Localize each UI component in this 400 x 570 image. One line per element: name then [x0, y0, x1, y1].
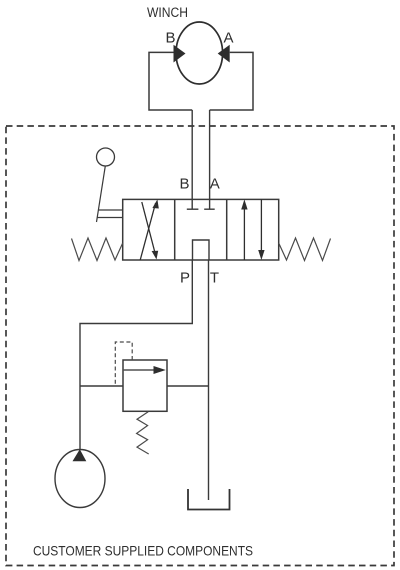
- svg-text:A: A: [223, 30, 233, 47]
- svg-text:B: B: [165, 30, 175, 47]
- svg-text:P: P: [180, 270, 190, 287]
- svg-text:CUSTOMER SUPPLIED COMPONENTS: CUSTOMER SUPPLIED COMPONENTS: [33, 544, 253, 559]
- svg-text:A: A: [210, 176, 220, 193]
- svg-text:WINCH: WINCH: [147, 5, 188, 20]
- svg-text:T: T: [210, 270, 219, 287]
- svg-text:B: B: [179, 176, 189, 193]
